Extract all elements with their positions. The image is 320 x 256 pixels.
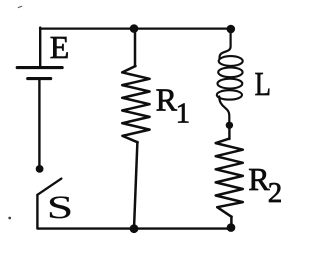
wire R1 top stub <box>134 29 137 67</box>
battery E top plate (long) <box>17 66 62 69</box>
wire R1 bottom stub <box>134 142 137 229</box>
node between L and R2 <box>226 122 233 129</box>
svg-text:1: 1 <box>176 98 191 130</box>
resistor R1 <box>122 66 149 142</box>
node bottom right corner <box>227 223 236 232</box>
switch S blade <box>37 179 61 195</box>
svg-text:E: E <box>50 29 70 65</box>
svg-text:L: L <box>255 66 271 103</box>
node top R1 junction <box>130 24 139 33</box>
svg-text:R: R <box>156 81 178 117</box>
node top right corner <box>227 25 236 34</box>
wire battery to switch contact <box>38 80 40 166</box>
inductor L coil loop 3 <box>218 79 243 89</box>
speck bottom left <box>8 217 11 220</box>
wire inductor exit to node <box>219 97 229 122</box>
label R1 <box>156 81 191 129</box>
wire bottom horizontal right part <box>134 227 231 229</box>
wire right top stub into inductor <box>219 29 230 59</box>
node switch contact <box>36 165 44 173</box>
svg-text:S: S <box>47 190 73 226</box>
wire node to R2 <box>228 125 230 139</box>
wire R2 bottom stub <box>230 217 233 228</box>
label R2 <box>248 161 282 209</box>
svg-text:2: 2 <box>268 177 283 209</box>
inductor L coil loop 1 <box>219 56 243 66</box>
speck top left <box>18 6 23 9</box>
inductor L coil loop 2 <box>218 67 242 77</box>
wire switch stub and bottom left corner <box>37 195 134 229</box>
resistor R2 <box>216 139 243 217</box>
wire left vertical from top corner to battery <box>39 28 41 67</box>
inductor L coil loop 4 <box>217 90 242 99</box>
wire top horizontal <box>40 27 231 29</box>
node bottom R1 junction <box>130 224 139 233</box>
battery E bottom plate (short) <box>28 77 51 80</box>
